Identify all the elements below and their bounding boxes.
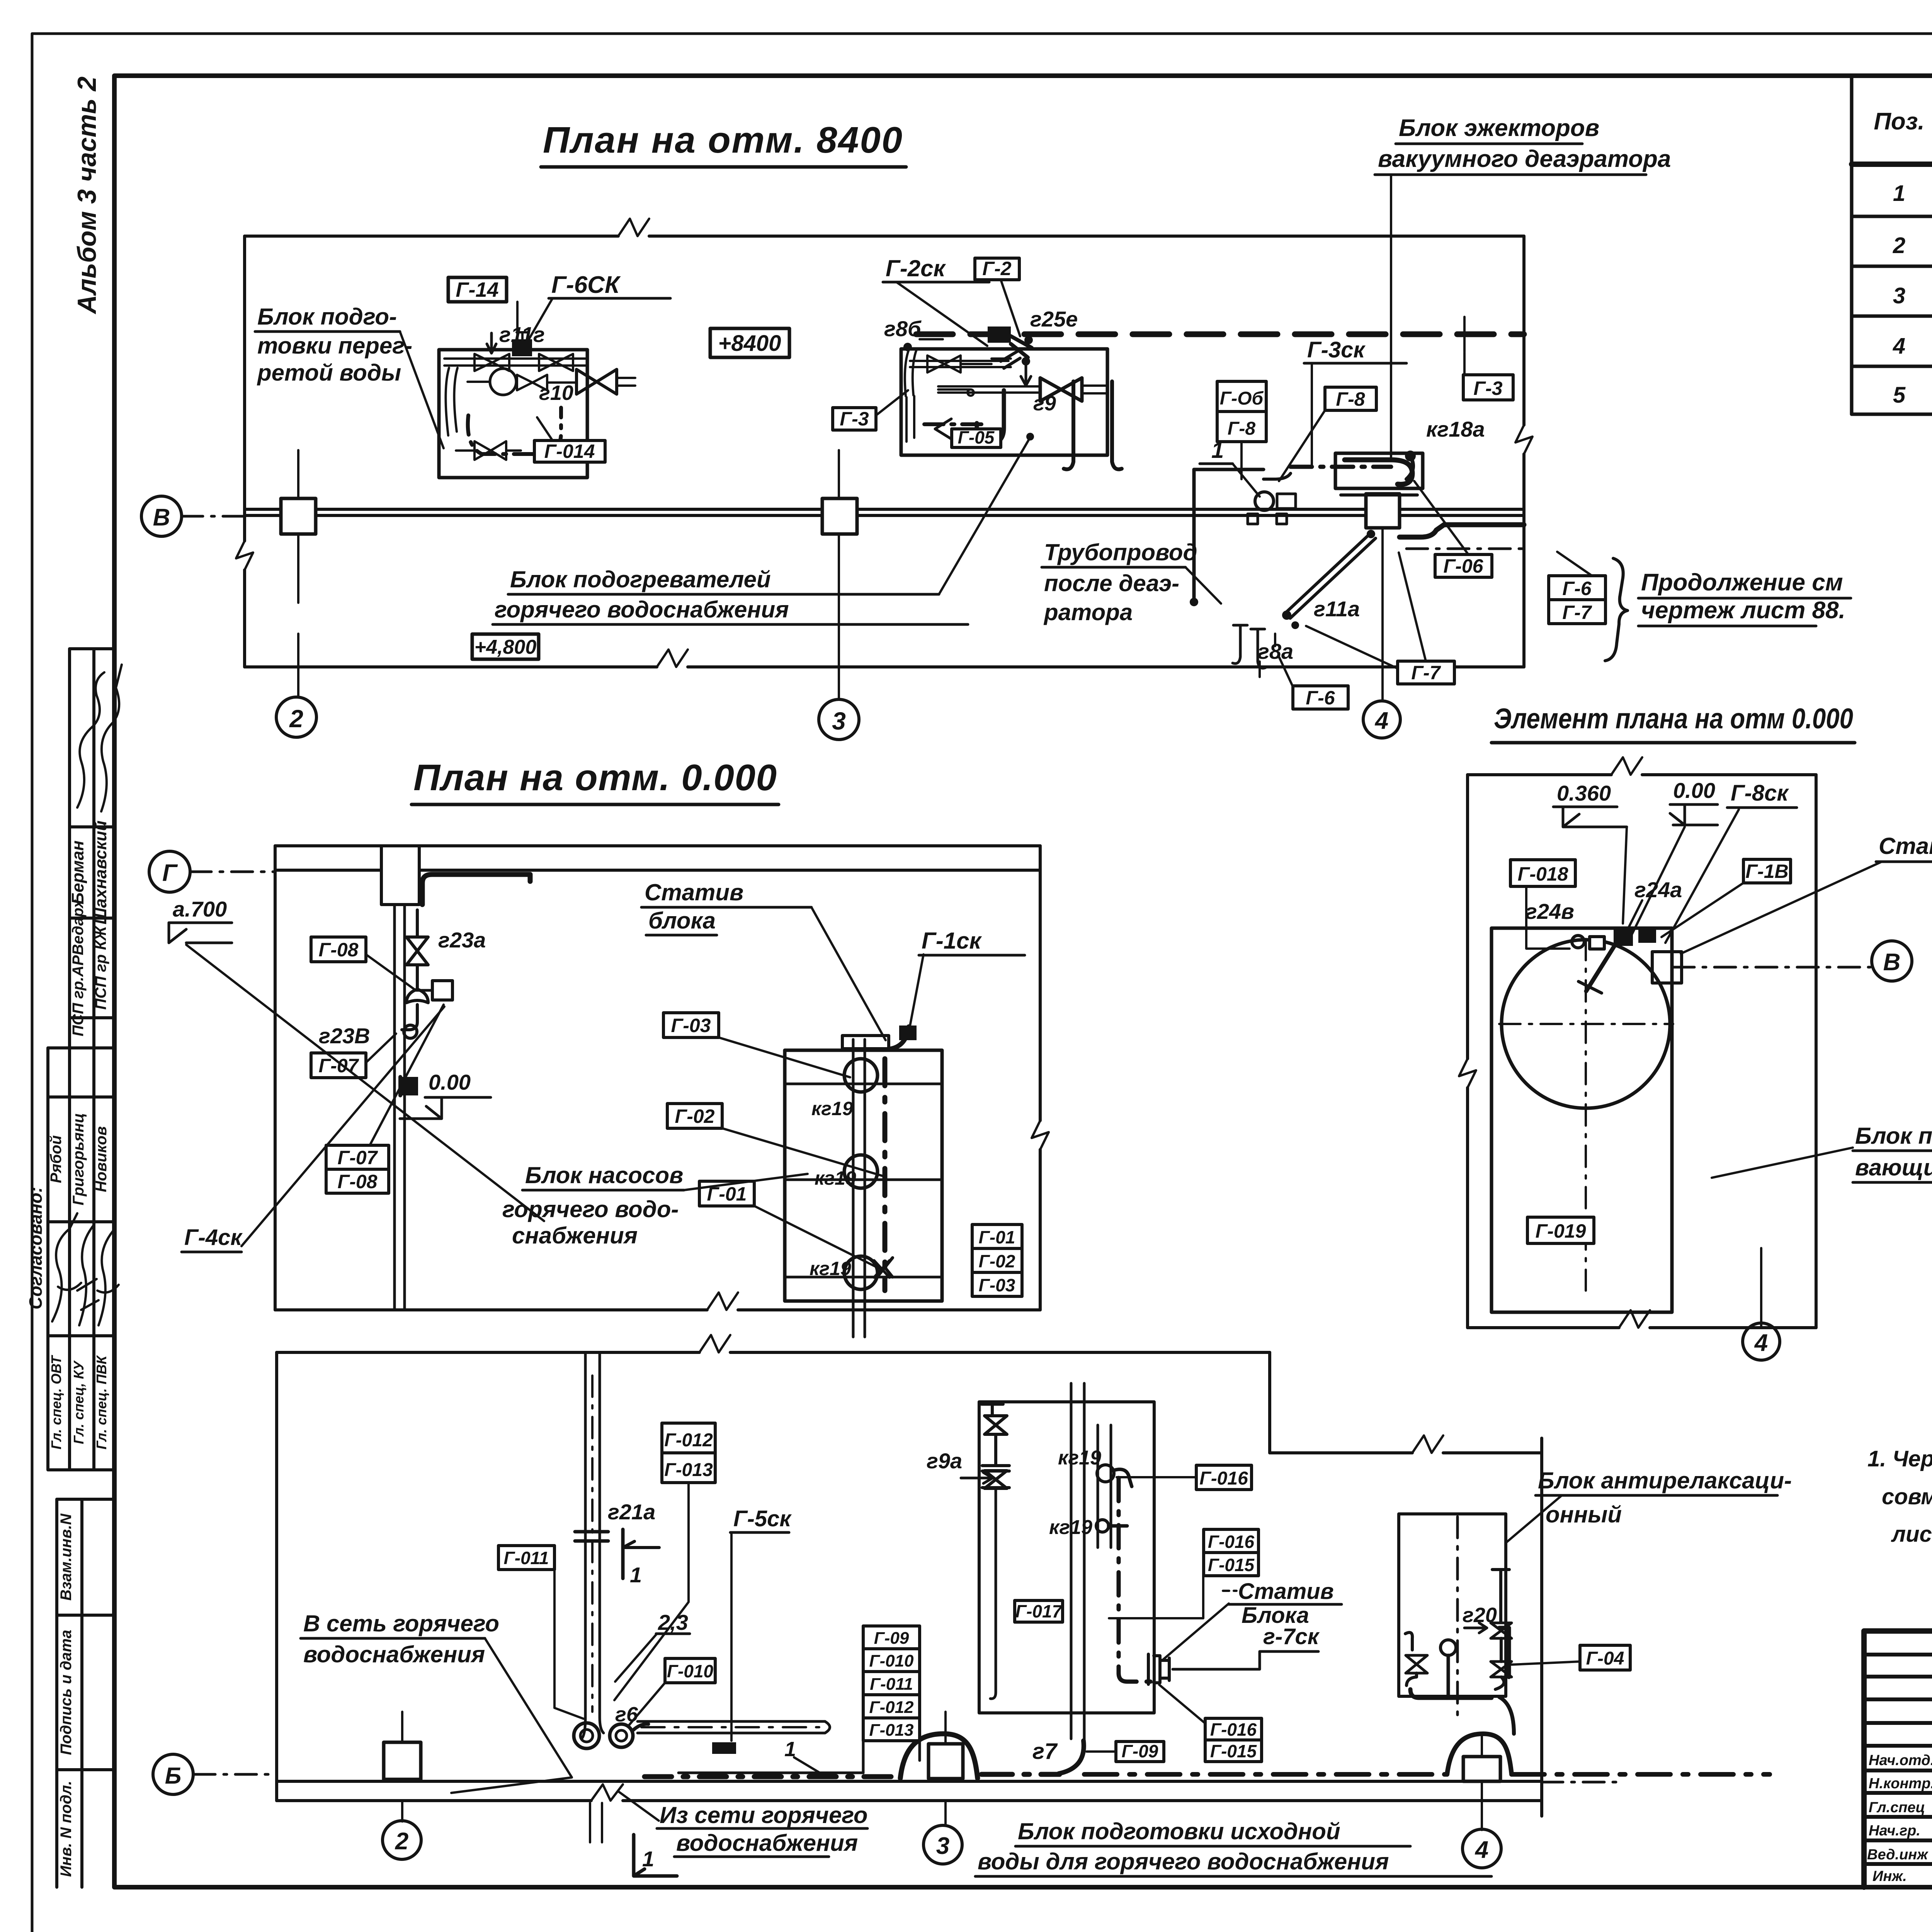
grid circle 4 top plan [1363,701,1400,738]
svg-text:Блок насосов: Блок насосов [525,1162,683,1188]
svg-text:Г-05: Г-05 [958,427,995,447]
axis B wall lines [245,508,1524,511]
svg-text:воды для горячего водоснабж: воды для горячего водоснабжения [978,1849,1389,1874]
deaerator ejector block [1335,453,1423,488]
svg-text:Берман: Берман [68,840,87,905]
svg-text:Г-013: Г-013 [869,1721,913,1740]
svg-text:Гл.спец: Гл.спец [1869,1799,1925,1816]
riser fitting black [988,327,1011,343]
connector stativ [1148,1654,1169,1684]
svg-text:Г-7: Г-7 [1562,602,1592,623]
svg-text:0.360: 0.360 [1557,781,1611,805]
svg-text:Г-04: Г-04 [1586,1648,1624,1669]
section mark 1 top [621,1529,625,1578]
svg-text:вающих насосов: вающих насосов [1855,1155,1932,1180]
svg-text:Г-011: Г-011 [504,1548,549,1568]
axis B dash-dot [182,515,247,518]
title block [1864,1631,1932,1887]
label box Г-05 [952,429,1001,447]
svg-text:г-7ск: г-7ск [1263,1624,1320,1649]
svg-text:Блок подготовки исходной: Блок подготовки исходной [1018,1818,1340,1844]
axis B dash-dot right [1673,966,1870,969]
svg-text:кг19: кг19 [810,1258,851,1279]
label box Г-010 bottom [665,1658,715,1683]
svg-text:1: 1 [1893,181,1905,206]
svg-text:Элемент плана на отм 0.000: Элемент плана на отм 0.000 [1494,702,1853,735]
vertical double pipe down [395,905,405,1310]
svg-text:г25е: г25е [1030,307,1078,331]
svg-text:Г-14: Г-14 [456,278,498,301]
stacked boxes Г-07 Г-08 [326,1145,389,1169]
svg-text:г24в: г24в [1526,899,1574,923]
svg-text:горячего водо-: горячего водо- [502,1196,679,1222]
left elbow pipe [446,368,457,435]
hook from pump1 [1114,1469,1132,1486]
г7 elbow [1059,1741,1084,1774]
svg-text:4: 4 [1374,707,1388,734]
svg-text:Г-016: Г-016 [1210,1719,1257,1740]
stack of 5 boxes [863,1626,920,1649]
svg-text:Блок перекачи-: Блок перекачи- [1855,1123,1932,1149]
J pipe thick [977,390,1004,444]
svg-text:3: 3 [1893,283,1905,308]
svg-text:Из сети горячего: Из сети горячего [660,1802,868,1828]
valves on pipe D [981,1404,1003,1415]
axis B circle element [1872,941,1912,981]
two candle marks [1233,625,1247,663]
brace [1605,558,1628,661]
valve pair 2 [539,354,573,371]
svg-text:Г-011: Г-011 [870,1675,913,1694]
grid line 3 [838,450,840,699]
svg-text:Г-08: Г-08 [338,1171,378,1192]
svg-text:Блок подогревателей: Блок подогревателей [510,566,771,592]
column grid3 top plan [822,498,857,534]
svg-text:г7: г7 [1032,1739,1058,1764]
svg-text:Г-07: Г-07 [338,1147,378,1168]
svg-text:г11а: г11а [1314,597,1360,621]
Г-1ск cap [899,1026,917,1040]
columns bottom plan [384,1742,421,1779]
svg-text:Г-1ск: Г-1ск [922,928,982,954]
svg-text:Г-03: Г-03 [671,1015,711,1036]
svg-text:Г-03: Г-03 [979,1275,1015,1295]
svg-text:кг19: кг19 [1058,1447,1101,1469]
svg-text:после деаэ-: после деаэ- [1044,570,1179,596]
svg-text:товки перег-: товки перег- [257,333,412,359]
grid line 4 [1381,528,1384,699]
svg-text:водоснабжения: водоснабжения [676,1830,858,1856]
svg-text:+4,800: +4,800 [474,636,537,658]
svg-text:Г-8: Г-8 [1336,388,1365,410]
black fitting on B [712,1742,736,1754]
grid lines bottom [401,1712,403,1821]
left margin: Согласовано group [48,1048,114,1470]
stacked boxes Г-Об / Г-8 [1217,381,1266,412]
middle pipe with valve г9 [938,386,1040,393]
svg-text:Г-015: Г-015 [1210,1741,1257,1761]
label box Г-03 [663,1013,719,1037]
svg-text:кг19: кг19 [811,1098,853,1119]
elbow loops at bottom [582,1718,604,1739]
horizontal pipe B [638,1721,825,1733]
svg-text:В: В [1883,949,1901,976]
svg-text:Г-02: Г-02 [979,1251,1015,1271]
svg-text:3: 3 [936,1833,949,1859]
svg-text:Г-019: Г-019 [1536,1220,1586,1242]
dash-dot through antirelax [1456,1517,1459,1723]
block podgotovki peregretoy vody (Г-014 block) [439,350,587,478]
thick pipe bottom right hump [1084,1772,1447,1777]
svg-text:Г-2: Г-2 [982,258,1011,279]
svg-text:Г-06: Г-06 [1444,555,1484,577]
svg-text:ратора: ратора [1043,599,1133,625]
svg-text:Г-3: Г-3 [1473,378,1502,399]
svg-text:Г-4ск: Г-4ск [184,1225,243,1250]
svg-text:Г-08: Г-08 [319,939,359,961]
svg-text:Г-015: Г-015 [1208,1555,1255,1575]
svg-text:г10: г10 [539,381,573,405]
dash-dot inside [924,422,989,426]
label box Г-09 [1116,1742,1164,1762]
leader Г-14 [516,302,519,348]
svg-text:Г-012: Г-012 [869,1698,914,1717]
svg-text:Статив блока: Статив блока [1879,833,1932,859]
svg-text:В: В [153,504,170,531]
label box Г-06 [1435,554,1492,577]
grid line 2 [297,450,299,697]
svg-text:Новиков: Новиков [93,1126,110,1192]
label box Г-019 [1527,1217,1594,1243]
svg-text:Г-2ск: Г-2ск [886,255,946,281]
diagonal double pipe [1286,533,1376,618]
svg-text:Гл. спец. ОВТ: Гл. спец. ОВТ [48,1355,64,1449]
label box Г-7 [1398,661,1454,684]
svg-text:Блок антирелаксаци-: Блок антирелаксаци- [1538,1468,1792,1493]
svg-text:Статив: Статив [1238,1579,1334,1604]
svg-text:Г-012: Г-012 [664,1430,713,1451]
kg18a curl pipe [1345,460,1412,484]
svg-text:Подпись и дата: Подпись и дата [58,1630,75,1755]
svg-text:1. Чертеж рассматривать: 1. Чертеж рассматривать [1867,1446,1932,1471]
svg-text:Г-014: Г-014 [544,440,595,462]
svg-text:Г-02: Г-02 [675,1105,715,1127]
svg-text:2,3: 2,3 [658,1610,688,1634]
svg-text:2: 2 [395,1828,408,1855]
svg-text:Шахнавский: Шахнавский [91,820,110,924]
stacked boxes Г-6 Г-7 right [1549,576,1605,600]
svg-text:Г-01: Г-01 [979,1227,1015,1247]
svg-text:0.00: 0.00 [1673,778,1715,803]
svg-text:г21а: г21а [608,1500,655,1524]
left elbow dash pipe [905,350,917,396]
bottom plan boundary [277,1351,1270,1354]
kg19 pumps on E [1097,1465,1114,1482]
flanges on pipe A [575,1532,608,1541]
fittings on tank top [1572,935,1584,948]
svg-text:Согласовано:: Согласовано: [26,1187,46,1310]
svg-text:г23а: г23а [438,928,486,952]
small valve lower [474,441,506,460]
door column rect [381,846,419,905]
tank centerlines [1499,1023,1673,1025]
svg-text:Г-3: Г-3 [840,408,869,430]
label Г-3 left box [833,408,876,430]
svg-text:Г-016: Г-016 [1208,1532,1255,1552]
svg-text:кг19: кг19 [815,1167,856,1189]
label box Г-016 top [1196,1465,1252,1490]
elevation +8400 box [710,328,789,357]
pump block [785,1050,942,1301]
leader to connector [1163,1604,1229,1660]
block F stativ rect [979,1402,1154,1713]
svg-text:1: 1 [630,1563,642,1587]
svg-text:г9: г9 [1033,392,1056,415]
elevation +4,800 box [472,634,539,659]
bottom wall lines [277,1780,1542,1783]
svg-text:Г: Г [162,860,178,886]
svg-text:Альбом 3 часть 2: Альбом 3 часть 2 [72,77,102,315]
dash-dot pipe to deaerator [1264,473,1291,479]
pump circles [844,1059,878,1092]
svg-text:Г-3ск: Г-3ск [1307,337,1366,362]
svg-text:4: 4 [1754,1330,1768,1356]
valve pair 1 [474,354,509,371]
г23в circle [404,1025,417,1038]
svg-text:ПСП гр КЖ: ПСП гр КЖ [92,925,109,1010]
grid circle 2 [276,697,316,737]
leader ezhektorov [1390,175,1392,460]
Г-05 block rect [901,349,1107,455]
thin pipe vertical from pumps [1192,469,1196,601]
element plan boundary [1468,773,1816,776]
svg-text:0.00: 0.00 [429,1070,471,1094]
platform under pipe B [679,1772,863,1774]
piping in Г-05 block [910,361,1009,367]
svg-text:5: 5 [1893,383,1906,408]
riser valve assembly [416,910,419,937]
svg-text:Г-010: Г-010 [869,1651,914,1670]
svg-text:Г-016: Г-016 [1199,1468,1248,1489]
label box Г-2 [975,258,1019,280]
svg-text:Г-018: Г-018 [1518,863,1568,885]
stacked Г-012 Г-013 top left [662,1423,715,1453]
svg-text:Г-7: Г-7 [1411,662,1441,684]
svg-text:Гл. спец, КУ: Гл. спец, КУ [71,1360,87,1444]
axis B circle [141,496,182,536]
label box Г-02 [667,1104,722,1128]
grid4 line and circle element [1760,1323,1762,1328]
svg-text:Григорьянц: Григорьянц [70,1113,87,1206]
axis B column [1652,952,1682,983]
svg-text:Блок эжекторов: Блок эжекторов [1399,115,1599,141]
svg-text:Г-09: Г-09 [874,1629,909,1648]
curve pipe top right of block [889,1027,909,1049]
label box Г-014 [534,440,605,462]
antirelax block [1399,1514,1506,1696]
label box Г-8 right [1325,387,1376,410]
svg-text:Инж.: Инж. [1872,1868,1907,1884]
dash-dot loop in block [468,408,561,454]
left margin: approvals upper group [70,649,114,1048]
small square fitting [432,981,452,1000]
label Г-14 box [448,277,507,302]
svg-text:В сеть горячего: В сеть горячего [303,1611,499,1636]
svg-text:Нач.гр.: Нач.гр. [1869,1823,1920,1839]
svg-text:Вед.инж: Вед.инж [1867,1847,1929,1863]
svg-text:г23В: г23В [319,1024,370,1048]
label box Г-01 [699,1181,754,1206]
svg-text:Н.контр.: Н.контр. [1869,1776,1932,1792]
svg-text:Статив: Статив [645,879,743,905]
pump discharge valves [517,375,547,390]
dashed steam line [916,332,1524,337]
label box Г-1В [1743,859,1791,883]
svg-text:Г-8: Г-8 [1228,418,1255,439]
svg-text:Гл. спец. ПВК: Гл. спец. ПВК [94,1355,109,1449]
label box Г-08 [311,937,366,962]
svg-text:кг19: кг19 [1049,1516,1092,1539]
svg-text:Г-1В: Г-1В [1745,861,1788,882]
axis B(b) dash-dot [194,1773,277,1776]
svg-text:Г-013: Г-013 [664,1460,713,1480]
top plan boundary [245,235,1524,238]
thick pipe step right of column [1400,525,1524,537]
svg-text:Рябой: Рябой [48,1135,65,1183]
stacked Г-016 Г-015 upper [1204,1529,1259,1553]
svg-text:Взам.инв.N: Взам.инв.N [58,1513,75,1600]
pumps on axis [1255,492,1274,510]
svg-text:1: 1 [642,1847,654,1871]
axis Г circle [149,851,190,892]
pump circle [490,369,516,395]
svg-text:чертеж лист 88.: чертеж лист 88. [1641,597,1845,624]
thick entry pipe [422,874,530,905]
svg-text:водоснабжения: водоснабжения [303,1641,485,1667]
column grid2 top plan [281,498,316,534]
stacked Г-016 Г-015 lower [1205,1718,1262,1740]
label box Г-017 [1015,1600,1063,1622]
grid circles bottom [383,1821,421,1859]
stacked boxes Г-01 Г-02 Г-03 [972,1225,1022,1248]
svg-text:План на отм. 8400: План на отм. 8400 [543,119,902,161]
middle plan boundary [275,844,1040,847]
svg-text:Г-09: Г-09 [1122,1741,1158,1761]
svg-text:Поз.: Поз. [1874,108,1924,135]
svg-text:Г-017: Г-017 [1015,1601,1063,1621]
vertical pipe D [1071,1383,1084,1741]
signatures upper (squiggles) [77,672,104,808]
column grid4 top plan [1366,494,1400,528]
svg-text:Инв. N подл.: Инв. N подл. [58,1781,75,1877]
leader dot for podogrevateley [1026,433,1034,440]
grid circle 3 [819,699,859,740]
svg-text:Г-Об: Г-Об [1220,388,1264,409]
big valve right [577,369,617,394]
parts table top right [1852,77,1932,414]
top flange [842,1036,889,1049]
svg-text:4: 4 [1475,1837,1488,1863]
tank rect [1492,928,1672,1312]
axis b circle [153,1754,193,1794]
signatures mid (squiggles) [52,1213,81,1321]
svg-text:онный: онный [1546,1502,1622,1527]
label Г-3 right box [1463,375,1513,400]
vertical pipe pair through block [853,1039,865,1337]
svg-text:+8400: +8400 [718,331,781,356]
svg-text:г6: г6 [615,1703,638,1726]
valve actuator filled [512,339,532,356]
label box Г-6 bottom [1293,686,1348,709]
svg-text:совместно с чертежом: совместно с чертежом [1882,1484,1932,1509]
label box Г-011 bottom plan [498,1546,554,1570]
svg-text:кг18а: кг18а [1426,417,1485,441]
black square fitting [402,1077,418,1095]
thick dash-dot drop pipe [883,1059,888,1291]
svg-text:ретой воды: ретой воды [257,360,401,386]
svg-text:Г-6: Г-6 [1562,578,1592,599]
svg-text:Продолжение см: Продолжение см [1641,569,1843,596]
svg-text:Г-5ск: Г-5ск [733,1506,792,1531]
svg-text:лист 88: лист 88 [1891,1522,1932,1547]
svg-text:ПСП гр.АРВедарх: ПСП гр.АРВедарх [70,899,87,1036]
svg-text:Нач.отд.: Нач.отд. [1869,1752,1932,1769]
svg-text:2: 2 [289,705,303,733]
svg-text:Г-010: Г-010 [667,1661,714,1681]
svg-text:4: 4 [1893,333,1905,359]
main vertical pipe pair A [585,1352,600,1718]
inner pipe E [1098,1425,1111,1548]
svg-text:а.700: а.700 [173,897,227,921]
svg-text:Г-8ск: Г-8ск [1731,781,1789,806]
section mark 1 bottom [634,1835,677,1876]
dash-dot G [1117,1478,1121,1673]
svg-text:горячего водоснабжения: горячего водоснабжения [495,597,789,622]
leader stack to square [370,1005,444,1145]
label box Г-04 [1580,1645,1630,1670]
svg-text:2: 2 [1893,233,1905,258]
antirelax internals [1405,1633,1412,1650]
svg-text:Блок подго-: Блок подго- [257,304,397,330]
tank circle [1502,940,1670,1108]
svg-text:г8б: г8б [884,316,922,341]
svg-text:вакуумного деаэратора: вакуумного деаэратора [1378,146,1671,172]
svg-text:Г-6: Г-6 [1306,687,1335,709]
svg-text:Г-6СК: Г-6СК [551,272,621,298]
label box Г-018 [1510,860,1575,886]
г24 pipe slant [1586,945,1615,991]
top pipe run in block [444,359,585,366]
thick dash-dot pipe C [645,1774,900,1779]
svg-text:План на отм. 0.000: План на отм. 0.000 [413,757,777,798]
svg-text:снабжения: снабжения [512,1223,638,1248]
svg-text:Трубопровод: Трубопровод [1044,539,1197,565]
down arrow [487,333,496,353]
label box Г-07 [311,1053,366,1078]
svg-text:3: 3 [832,707,846,735]
svg-text:Б: Б [165,1763,181,1789]
two riser strokes [1064,381,1073,469]
svg-text:г9а: г9а [927,1449,962,1473]
svg-text:блока: блока [648,908,716,934]
left margin: inventory boxes [57,1499,114,1887]
